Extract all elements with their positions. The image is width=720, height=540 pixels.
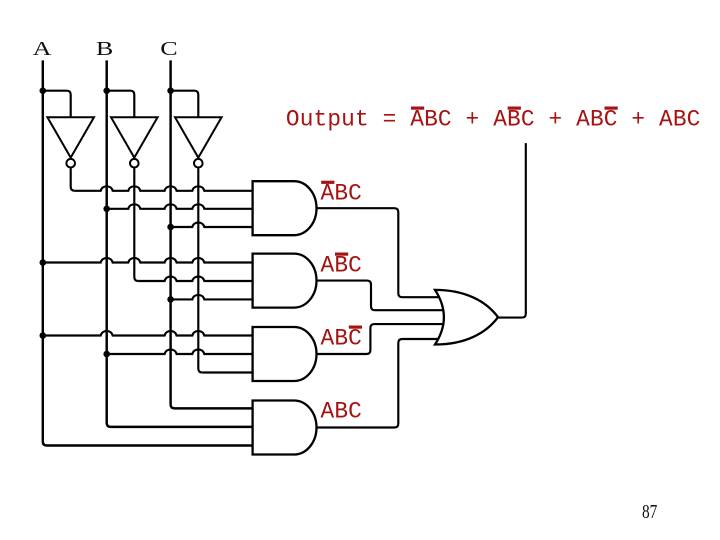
svg-text:87: 87 (642, 500, 657, 523)
svg-text:C: C (160, 38, 177, 60)
svg-text:ABC: ABC (321, 181, 362, 207)
svg-text:ABC: ABC (321, 325, 362, 351)
svg-text:A: A (33, 38, 52, 60)
svg-text:ABC: ABC (321, 399, 362, 425)
svg-text:ABC: ABC (321, 252, 362, 278)
svg-text:B: B (96, 38, 113, 60)
svg-text:Output = ABC + ABC + ABC + ABC: Output = ABC + ABC + ABC + ABC (286, 106, 701, 132)
